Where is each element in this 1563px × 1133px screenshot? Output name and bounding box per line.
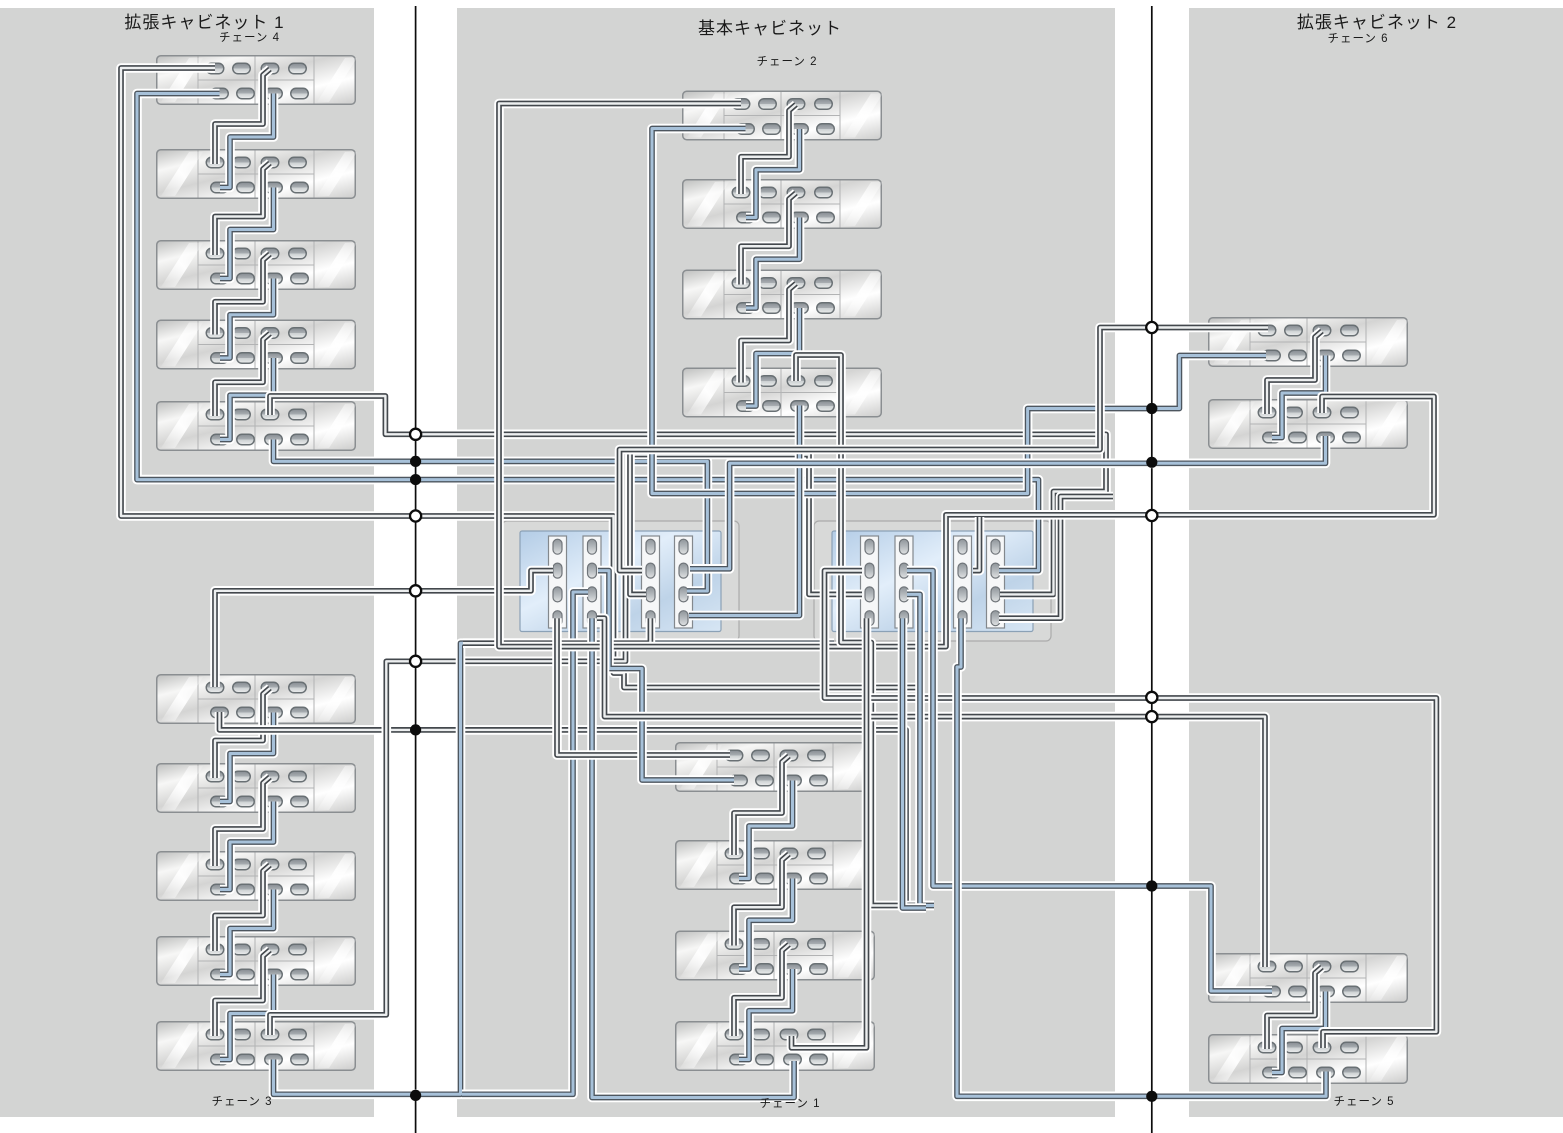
wire chain3 shelf3-shelf4 dark xyxy=(215,865,270,951)
controller U2 (head 2) xyxy=(814,521,1051,641)
wire controller1 slot2-p3 riser to bottom run xyxy=(462,592,588,1094)
disk shelf chain3-4 xyxy=(157,937,357,986)
label label chain 6 xyxy=(1327,30,1388,46)
junction dot left D2 xyxy=(410,456,421,467)
disk shelf chain2-3 xyxy=(683,270,883,319)
wire chain4 shelf3-shelf4 blue xyxy=(220,279,274,359)
disk shelf chain2-1 xyxy=(683,91,883,140)
wire chain4 shelf2-shelf3 blue xyxy=(220,188,274,279)
wire chain3 shelf4-shelf5 blue xyxy=(220,975,274,1060)
wire chain1 shelf3-shelf4 blue xyxy=(739,969,793,1060)
center cabinet panel xyxy=(457,8,1115,1117)
wire chain4 shelf4-shelf5 dark xyxy=(215,334,270,417)
wire chain6 shelf1-shelf2 blue xyxy=(1272,356,1326,438)
wire chain5 shelf1-shelf2 dark xyxy=(1267,967,1322,1049)
disk shelf chain2-2 xyxy=(683,180,883,229)
disk shelf chain3-2 xyxy=(157,764,357,813)
wire chain4 shelf1-shelf2 blue xyxy=(220,94,274,188)
junction open circle right D5 xyxy=(1146,692,1157,703)
wire chain4 shelf4-shelf5 blue xyxy=(220,358,274,440)
cabinet boundary line left xyxy=(415,6,417,1133)
wire chain1 shelf1-shelf2 dark xyxy=(734,756,789,855)
label label chain 1 xyxy=(759,1095,820,1111)
wire chain4-5 bottom port3 to controller1 slot4-p3 (T2) xyxy=(274,440,708,592)
junction open circle right D6 xyxy=(1146,711,1157,722)
wire chain1 shelf2-shelf3 blue xyxy=(739,879,793,970)
wire chain2-1 bottom port1 to chain6-1 bottom port1 xyxy=(652,129,1266,494)
wire controller1 slot4-p2 to chain6-2 bottom port3 (T463) xyxy=(690,436,1326,569)
disk shelf chain3-5 xyxy=(157,1022,357,1071)
wire chain4 shelf2-shelf3 dark xyxy=(215,163,270,255)
wire controller1 slot2-p4 to chain1-4 bottom port3 xyxy=(592,618,794,1097)
left cabinet panel xyxy=(0,8,374,1117)
wire chain3-5 bottom port3 long run to x841 (via left dot) xyxy=(274,643,835,1094)
wire chain3 shelf4-shelf5 dark xyxy=(215,950,270,1036)
disk shelf chain4-4 xyxy=(157,320,357,369)
wire chain3-5 top port3 to controller2 slot1-p3 (T6) xyxy=(270,455,862,1036)
wire chain3 shelf1-shelf2 blue xyxy=(220,713,274,802)
wire controller2 slot3-p4 to chain5-2 bottom port3 xyxy=(957,618,1326,1096)
wire chain2 shelf2-shelf3 blue xyxy=(746,218,800,309)
wire controller1 slot2-p2 to chain1-1 bottom port1 xyxy=(598,571,734,780)
junction open circle left D1 xyxy=(410,429,421,440)
junction dot left D7 xyxy=(410,724,421,735)
disk shelf chain3-3 xyxy=(157,852,357,901)
junction dot right D8 xyxy=(1146,1091,1157,1102)
wire controller1 slot3-p2 to chain6-1 top port1 (T450) xyxy=(620,328,1269,571)
wire chain1 shelf3-shelf4 dark xyxy=(734,945,789,1037)
wire controller2 slot4-p4 feed riser xyxy=(999,497,1113,619)
wire controller1 slot3-p4 to left run y643 xyxy=(463,618,650,643)
wire chain3 shelf2-shelf3 dark xyxy=(215,777,270,866)
wire chain4-5 top port3 to controller2 slot4-p3 (T1) xyxy=(270,396,1106,594)
disk shelf chain1-2 xyxy=(676,841,876,890)
disk shelf chain5-1 xyxy=(1209,954,1409,1003)
wire controller1 slot3-p3 feed riser xyxy=(630,455,646,595)
wire chain2 shelf1-shelf2 dark xyxy=(741,105,796,195)
wire controller1 slot2-p4/jog to chain5-1 top port1 (T717) xyxy=(597,618,1265,967)
disk shelf chain3-1 xyxy=(157,675,357,724)
label title expansion cabinet 1 xyxy=(124,8,284,33)
label title expansion cabinet 2 xyxy=(1297,8,1457,33)
label label chain 5 xyxy=(1333,1093,1394,1109)
wire chain1 shelf1-shelf2 blue xyxy=(739,781,793,879)
wire controller2 slot2-p4 down run xyxy=(903,618,927,908)
disk shelf chain4-3 xyxy=(157,241,357,290)
junction dot right D7 xyxy=(1146,880,1157,891)
wire controller1 slot1-p4 to chain1-1 top port1 xyxy=(557,618,730,755)
wire chain2 shelf1-shelf2 blue xyxy=(746,129,800,218)
junction open circle right D4 xyxy=(1146,510,1157,521)
disk shelf chain5-2 xyxy=(1209,1035,1409,1084)
disk shelf chain2-4 xyxy=(683,368,883,417)
wire chain4 shelf1-shelf2 dark xyxy=(215,69,270,164)
wire controller2 slot3-p2 riser stub xyxy=(973,517,980,571)
wire chain3 shelf3-shelf4 blue xyxy=(220,890,274,975)
wire chain3-1 top port1 to controller1 slot1-p2 (T5) xyxy=(215,571,553,687)
wire chain2-4 top port3 loop to chain5-2 bottom port3 xyxy=(796,355,934,906)
junction dot right D3 xyxy=(1146,457,1157,468)
disk shelf chain1-3 xyxy=(676,931,876,980)
label label chain 4 xyxy=(219,29,280,45)
wire chain3-1 bottom port1 to controller2 slot2-p2 (T7) xyxy=(220,712,931,906)
junction dot left D8 xyxy=(410,1090,421,1101)
disk shelf chain4-1 xyxy=(157,56,357,105)
wire chain2 shelf3-shelf4 dark xyxy=(741,284,796,383)
label label chain 2 xyxy=(756,53,817,69)
wire chain3 shelf1-shelf2 dark xyxy=(215,688,270,778)
disk shelf chain6-1 xyxy=(1209,318,1409,367)
disk shelf chain1-1 xyxy=(676,743,876,792)
junction open circle left D6 xyxy=(410,656,421,667)
disk shelf chain6-2 xyxy=(1209,400,1409,449)
wire chain1 shelf2-shelf3 dark xyxy=(734,854,789,946)
junction open circle left D5 xyxy=(410,585,421,596)
wire chain4 shelf3-shelf4 dark xyxy=(215,254,270,335)
junction dot left D3 xyxy=(410,474,421,485)
disk shelf chain4-2 xyxy=(157,150,357,199)
wire controller2 slot1-p2 to chain5-2 top port3 xyxy=(825,571,1437,1048)
wire controller2 slot2-p2 to chain5-1 bottom port1 xyxy=(907,571,1272,991)
wire chain3 shelf2-shelf3 blue xyxy=(220,802,274,890)
wire chain5 shelf1-shelf2 blue xyxy=(1272,992,1326,1073)
wire chain2 shelf2-shelf3 dark xyxy=(741,193,796,285)
right cabinet panel xyxy=(1189,8,1563,1117)
cabinet boundary line right xyxy=(1151,6,1153,1133)
junction dot right D2 xyxy=(1146,403,1157,414)
wire chain2-4 bottom port3 to controller1 slot4-p4 xyxy=(689,406,800,616)
label title base cabinet xyxy=(698,14,842,39)
junction open circle left D4 xyxy=(410,510,421,521)
controller U1 (head 1) xyxy=(502,521,739,641)
junction open circle right D1 xyxy=(1146,322,1157,333)
wire chain4-1 top port1 to controller1 slot2-p3 (T4) xyxy=(121,68,920,688)
wire chain2-1 top port1 long run to chain6-2 top port3 (T515) xyxy=(499,104,1434,647)
wire controller2 slot2-p3 down run xyxy=(907,594,934,905)
wire chain2 shelf3-shelf4 blue xyxy=(746,308,800,406)
wire controller2 slot1-p4 to chain1-4 top port3 xyxy=(792,618,867,1048)
wire chain4-1 bottom port1 to controller2 slot4-p2 (T3) xyxy=(137,94,1039,571)
label label chain 3 xyxy=(211,1093,272,1109)
disk shelf chain4-5 xyxy=(157,402,357,451)
wire chain6 shelf1-shelf2 dark xyxy=(1267,331,1322,414)
disk shelf chain1-4 xyxy=(676,1022,876,1071)
